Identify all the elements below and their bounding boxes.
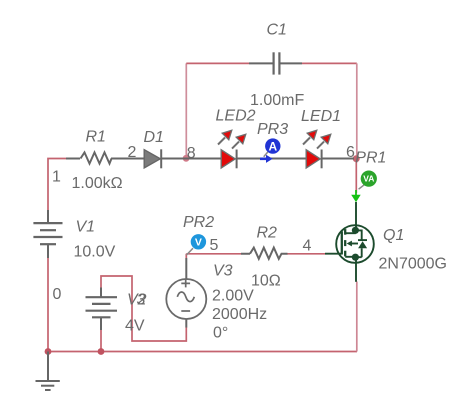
svg-text:2.00V: 2.00V <box>212 287 254 304</box>
svg-text:4V: 4V <box>125 317 145 334</box>
svg-text:6: 6 <box>346 144 355 161</box>
svg-text:V3: V3 <box>213 263 233 280</box>
svg-text:LED1: LED1 <box>301 108 341 125</box>
svg-text:10Ω: 10Ω <box>251 273 281 290</box>
svg-text:2N7000G: 2N7000G <box>379 255 448 272</box>
svg-text:VA: VA <box>363 174 374 184</box>
svg-text:5: 5 <box>210 237 219 254</box>
svg-text:0°: 0° <box>213 324 228 341</box>
svg-text:Q1: Q1 <box>383 227 404 244</box>
svg-text:PR3: PR3 <box>257 121 288 138</box>
svg-text:3: 3 <box>137 291 146 308</box>
svg-text:D1: D1 <box>144 129 164 146</box>
svg-text:2: 2 <box>128 144 137 161</box>
svg-text:0: 0 <box>53 286 62 303</box>
svg-text:C1: C1 <box>267 22 287 39</box>
svg-text:10.0V: 10.0V <box>74 244 116 261</box>
svg-text:8: 8 <box>187 145 196 162</box>
svg-text:PR1: PR1 <box>355 150 386 167</box>
svg-text:V1: V1 <box>76 218 96 235</box>
svg-text:R2: R2 <box>257 224 278 241</box>
svg-text:2000Hz: 2000Hz <box>212 306 267 323</box>
svg-text:LED2: LED2 <box>216 107 256 124</box>
svg-text:R1: R1 <box>86 128 106 145</box>
svg-text:1.00mF: 1.00mF <box>250 92 304 109</box>
svg-text:4: 4 <box>303 237 312 254</box>
svg-text:PR2: PR2 <box>183 214 214 231</box>
svg-text:1.00kΩ: 1.00kΩ <box>72 175 123 192</box>
svg-text:V: V <box>195 237 202 249</box>
svg-text:A: A <box>268 139 277 153</box>
svg-text:1: 1 <box>52 169 61 186</box>
